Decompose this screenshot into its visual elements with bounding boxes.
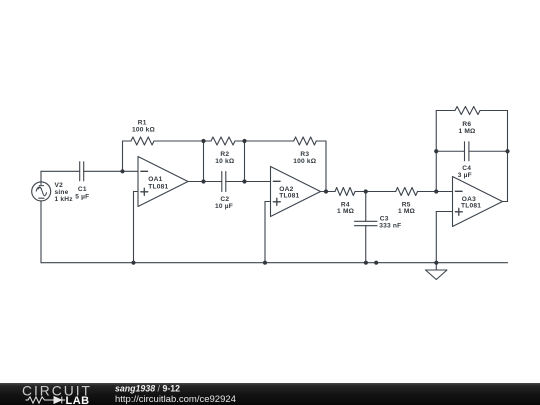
label OA2 value [279, 186, 299, 200]
junction [364, 261, 368, 265]
op-amp OA1 [138, 157, 188, 207]
junction [434, 189, 438, 193]
wire (bottom rail) [41, 262, 508, 264]
wire [436, 212, 452, 263]
junction [120, 169, 124, 173]
label C3 value [379, 215, 401, 229]
svg-text:LAB: LAB [66, 395, 90, 405]
svg-text:5 µF: 5 µF [75, 193, 89, 200]
svg-text:V2: V2 [55, 182, 64, 189]
svg-text:C3: C3 [380, 215, 389, 222]
label V2 value [55, 182, 74, 203]
CircuitLab logo [22, 383, 92, 405]
capacitor C4 [436, 142, 507, 161]
svg-text:C2: C2 [220, 196, 229, 203]
label OA3 value [461, 196, 481, 209]
ground [426, 263, 448, 280]
resistor R5 [366, 188, 437, 196]
label R4 value [337, 201, 355, 215]
capacitor C2 [222, 172, 226, 192]
svg-text:OA1: OA1 [148, 176, 162, 183]
resistor R1 [123, 137, 204, 145]
svg-text:TL081: TL081 [461, 202, 481, 209]
capacitor C3 [355, 192, 378, 263]
svg-text:10 µF: 10 µF [215, 203, 233, 210]
wire [134, 192, 139, 263]
label C2 value [215, 196, 233, 210]
wire [84, 170, 138, 172]
wire [325, 141, 327, 192]
wire [507, 111, 509, 152]
junction [434, 261, 438, 265]
svg-text:sang1938 / 9-12: sang1938 / 9-12 [115, 384, 180, 394]
wire [122, 141, 124, 171]
junction [364, 189, 368, 193]
junction [434, 149, 438, 153]
svg-text:R1: R1 [138, 120, 147, 127]
junction [505, 149, 509, 153]
label C1 value [75, 186, 89, 201]
junction [242, 179, 246, 183]
label OA1 value [148, 176, 168, 190]
junction [242, 139, 246, 143]
wire [245, 181, 271, 183]
svg-text:C1: C1 [78, 186, 87, 193]
label C4 value [458, 165, 472, 179]
resistor R3 [245, 137, 327, 145]
resistor R4 [326, 188, 366, 196]
wire [40, 201, 42, 263]
svg-text:sine: sine [55, 189, 69, 196]
voltage source V2 [32, 182, 51, 201]
wire [321, 191, 327, 193]
wire [507, 151, 509, 201]
label R5 value [398, 201, 416, 215]
junction [201, 139, 205, 143]
svg-text:TL081: TL081 [279, 193, 299, 200]
footer text [115, 384, 236, 405]
wire [435, 111, 437, 192]
svg-text:TL081: TL081 [148, 183, 168, 190]
junction [131, 261, 135, 265]
wire [265, 202, 271, 263]
resistor R6 [436, 107, 507, 115]
wire [244, 141, 246, 182]
wire [226, 181, 245, 183]
svg-text:10 kΩ: 10 kΩ [215, 158, 235, 165]
svg-text:1 kHz: 1 kHz [55, 196, 74, 203]
svg-text:http://circuitlab.com/ce92924: http://circuitlab.com/ce92924 [115, 394, 236, 405]
resistor R2 [204, 137, 245, 145]
wire [40, 171, 42, 182]
wire [41, 170, 80, 172]
label R1 value [132, 120, 156, 134]
wire [203, 141, 205, 182]
junction [324, 189, 328, 193]
label R3 value [293, 151, 317, 165]
wire [204, 181, 222, 183]
svg-text:1 MΩ: 1 MΩ [458, 128, 476, 135]
wire [188, 181, 204, 183]
op-amp OA2 [271, 167, 321, 217]
svg-text:1 MΩ: 1 MΩ [398, 208, 416, 215]
junction [374, 261, 378, 265]
wire [503, 201, 508, 203]
svg-text:3 µF: 3 µF [458, 172, 472, 179]
wire [436, 191, 452, 193]
svg-text:100 kΩ: 100 kΩ [293, 158, 317, 165]
junction [201, 179, 205, 183]
op-amp OA3 [453, 177, 503, 227]
junction [263, 261, 267, 265]
svg-text:1 MΩ: 1 MΩ [337, 208, 355, 215]
label R6 value [458, 121, 476, 135]
capacitor C1 [80, 162, 84, 181]
label R2 value [215, 151, 235, 165]
svg-text:333 nF: 333 nF [379, 222, 401, 229]
svg-text:100 kΩ: 100 kΩ [132, 127, 156, 134]
footer bar [0, 383, 540, 405]
